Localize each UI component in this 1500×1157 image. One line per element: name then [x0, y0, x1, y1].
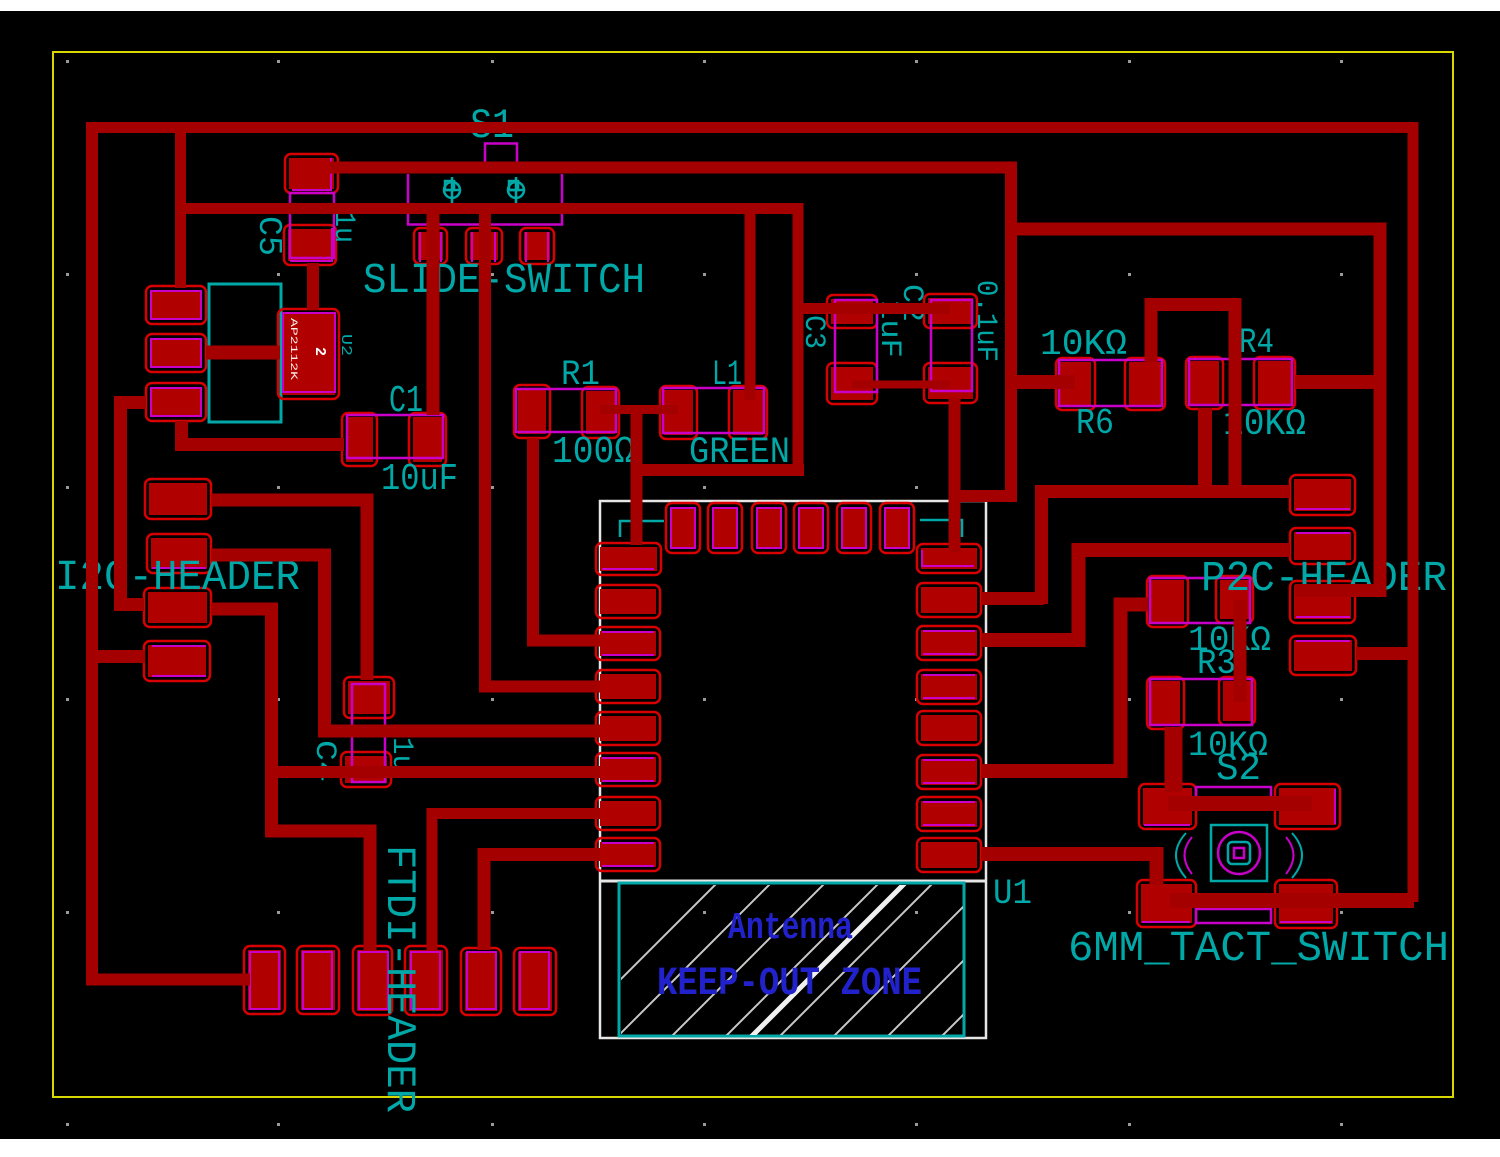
- svg-text:R4: R4: [1239, 323, 1274, 363]
- regulator U2 pin 2: [146, 334, 206, 372]
- pad detail U1 top 6: [885, 508, 909, 548]
- I2C header pad 1: [145, 479, 211, 519]
- svg-text:2: 2: [311, 347, 328, 356]
- resistor R3 pad 1: [1147, 576, 1188, 627]
- capacitor C1 pad 1: [342, 413, 377, 466]
- U1 inner silk corner left: [620, 521, 664, 537]
- svg-text:U1: U1: [993, 874, 1032, 914]
- U1 top pad 2: [708, 503, 742, 553]
- P2C header pad 4: [1290, 636, 1356, 675]
- svg-text:KEEP-OUT ZONE: KEEP-OUT ZONE: [657, 962, 922, 1007]
- wire W12 row2 to pad B: [981, 550, 1290, 640]
- pad detail U1 right 3: [923, 675, 975, 698]
- pad detail reg3: [151, 388, 201, 416]
- wire W18 S2 bottom link: [1170, 893, 1414, 908]
- resistor R7 pad 2: [1219, 677, 1255, 725]
- wire W24 I2C pad3 to FTDI pad2: [211, 609, 370, 950]
- svg-text:100Ω: 100Ω: [552, 431, 635, 474]
- FTDI header pad 4: [405, 946, 447, 1015]
- U1 left pad 7: [596, 838, 660, 871]
- wire W33 C5 to U2 tab: [307, 263, 319, 310]
- wire W20 R4 left pad down: [1198, 408, 1212, 490]
- pad detail U1 wide left: [602, 568, 654, 570]
- U1 right pad 7: [917, 838, 981, 872]
- pad detail U1 top 4: [799, 508, 823, 548]
- pad detail FTDI4: [411, 952, 440, 1009]
- wire W19 row7 to S2: [981, 854, 1157, 885]
- capacitor C4 pad 2: [341, 752, 391, 787]
- capacitor C5 pad 1: [285, 154, 338, 193]
- pad detail S2-2: [1334, 789, 1336, 824]
- resistor R6 pad 2: [1125, 358, 1165, 410]
- inductor L1 body: [663, 388, 764, 433]
- wire W1 top rail to S2: [86, 128, 1413, 903]
- pad detail U1 wide right: [922, 550, 974, 566]
- resistor R7 body: [1150, 679, 1252, 725]
- pad detail P2C A: [1296, 508, 1350, 510]
- pad detail reg1: [151, 291, 201, 319]
- FTDI header pad 1: [244, 946, 285, 1014]
- slide switch S1 tab: [485, 144, 517, 163]
- regulator U2 pin 1: [146, 286, 206, 324]
- U1 top pad 3: [752, 503, 786, 553]
- wire W14 row5 to R3: [981, 605, 1148, 772]
- wire W9 R6 left link: [1011, 375, 1075, 389]
- resistor R4 pad 2: [1254, 357, 1295, 409]
- FTDI header pad 5: [461, 948, 501, 1015]
- svg-text:C5: C5: [250, 216, 287, 256]
- pad detail FTDI5: [467, 952, 496, 1009]
- U1 corner pad right: [917, 544, 981, 573]
- wire W16 R7 to S2: [1165, 727, 1183, 792]
- wire W26 U1 row7 to FTDI pad4: [484, 855, 600, 951]
- U1 right pad 2: [917, 626, 981, 660]
- capacitor C5 pad 2: [284, 225, 336, 265]
- pad detail S2-3: [1142, 921, 1190, 923]
- wire W15 R3-R7 link: [1234, 600, 1247, 702]
- pad detail U1 right 5: [923, 760, 975, 783]
- U1 left pad 1: [596, 585, 660, 618]
- pad detail P2C D: [1296, 640, 1350, 642]
- U1 left pad 6: [596, 797, 660, 830]
- pad detail U1 top 2: [713, 508, 737, 548]
- resistor R6 pad 1: [1056, 358, 1095, 410]
- wire W36 R1 to U1 row2: [533, 438, 600, 641]
- U1 right pad 3: [917, 670, 981, 704]
- pad detail U1 right 2: [923, 631, 975, 654]
- capacitor C2 pad 1: [924, 294, 977, 328]
- pad detail U2 tab inset: [283, 313, 335, 392]
- antenna keep-out zone top edge: [601, 880, 985, 883]
- tact switch S2 bottom bar: [1196, 909, 1271, 923]
- pad detail U1 left 2: [602, 632, 654, 655]
- slide switch S1 pad 3: [520, 228, 554, 264]
- tact switch S2 top bar: [1196, 787, 1271, 799]
- capacitor C1 pad 2: [409, 413, 446, 466]
- svg-text:6MM_TACT_SWITCH: 6MM_TACT_SWITCH: [1068, 924, 1449, 973]
- svg-text:1u: 1u: [326, 211, 360, 243]
- FTDI header pad 6: [514, 948, 556, 1015]
- slide switch mounting mark: [443, 177, 461, 203]
- pad detail FTDI3: [359, 952, 388, 1009]
- resistor R1 pad 2: [582, 387, 619, 438]
- pad detail U1 top 1: [671, 508, 695, 548]
- svg-text:L1: L1: [712, 355, 742, 395]
- pad detail P2C B: [1296, 532, 1350, 534]
- resistor R4 body: [1189, 359, 1292, 405]
- U1 corner pad left: [596, 543, 661, 575]
- capacitor C5 body: [290, 193, 334, 258]
- wire W27 left rail to FTDI pad1: [92, 124, 250, 980]
- wire W2b branch to header pad C: [1011, 229, 1380, 591]
- wire W35 switch pad2 to U1 row3: [485, 206, 600, 687]
- wire W4 caps top link: [796, 303, 950, 314]
- P2C header pad 1: [1290, 475, 1355, 515]
- slide switch S1 pad 1: [414, 228, 447, 264]
- resistor R4 pad 1: [1186, 357, 1223, 409]
- pad detail S2-4: [1280, 921, 1332, 923]
- wire W11a R6 jumper to pad A: [1151, 305, 1290, 492]
- pad detail FTDI6: [520, 952, 549, 1009]
- I2C header pad 3: [144, 588, 211, 627]
- svg-text:U2: U2: [337, 334, 354, 356]
- svg-text:AP2112K: AP2112K: [287, 318, 298, 380]
- antenna keep-out zone inner outline: [619, 883, 964, 1036]
- grid dots: [66, 60, 69, 63]
- wire W2 C5 to C2 to U1: [330, 168, 1011, 553]
- svg-text:0.1uF: 0.1uF: [968, 280, 1002, 362]
- capacitor C3 body: [835, 300, 877, 392]
- bottom white margin: [0, 1139, 1500, 1152]
- U1 right pad 5: [917, 755, 981, 789]
- capacitor C2 pad 2: [924, 363, 977, 403]
- U1 left pad 2: [596, 627, 660, 660]
- U1 top pad 1: [666, 503, 700, 553]
- U1 top pad 6: [880, 503, 914, 553]
- tact switch S2 pad 3: [1137, 880, 1196, 927]
- svg-text:S2: S2: [1216, 748, 1261, 791]
- tact switch S2 button: [1228, 842, 1250, 864]
- svg-text:C1: C1: [389, 380, 423, 423]
- pad detail C5-2: [290, 228, 332, 261]
- U1 inner silk corner right: [920, 520, 962, 537]
- resistor R3 pad 2: [1216, 576, 1253, 623]
- svg-text:R6: R6: [1076, 403, 1114, 444]
- svg-text:R3: R3: [1197, 644, 1236, 684]
- top white margin: [0, 0, 1500, 11]
- U1 top pad 5: [837, 503, 871, 553]
- U1 top pad 4: [794, 503, 828, 553]
- inductor L1 pad 2: [729, 386, 767, 439]
- wire W28 I2C pad4 stub: [92, 650, 145, 663]
- U1 left pad 5: [596, 753, 660, 786]
- U1 right pad 6: [917, 797, 981, 831]
- ESP32 module U1 outline: [600, 501, 986, 1038]
- op-amp U2 courtyard box: [209, 284, 281, 422]
- pad detail U1 right 6: [923, 802, 975, 825]
- wire W31 rail to reg pin1: [175, 127, 186, 288]
- capacitor C4 pad 1: [344, 677, 394, 718]
- wire W5 caps bottom link: [852, 381, 950, 389]
- pad detail FTDI1: [250, 952, 279, 1009]
- wire W30 reg pin3 to I2C pad3: [121, 403, 147, 605]
- svg-text:R1: R1: [561, 355, 600, 395]
- wire W13 pad D link: [1356, 647, 1413, 660]
- capacitor C1 body: [347, 415, 443, 458]
- wire W6 LED net to U1 pad: [631, 408, 804, 545]
- pad detail I2C4: [152, 646, 206, 676]
- wire W11c row1 stub: [981, 592, 1044, 605]
- wire W23 C4 to U1 row5: [268, 766, 600, 778]
- svg-text:FTDI-HEADER: FTDI-HEADER: [375, 845, 423, 1113]
- I2C header pad 4: [144, 641, 210, 681]
- regulator U2 pin 3: [146, 383, 206, 421]
- svg-text:SLIDE-SWITCH: SLIDE-SWITCH: [363, 256, 645, 305]
- wire W10 R4 right link: [1295, 375, 1380, 389]
- resistor R1 body: [516, 389, 616, 432]
- U1 right pad 1: [917, 583, 981, 617]
- U1 left pad 4: [596, 712, 660, 745]
- wire W32 reg pin3 to C1: [182, 421, 345, 445]
- capacitor C4 body: [352, 684, 385, 782]
- wire W21 I2C pad1 to C4: [211, 500, 367, 680]
- svg-text:Antenna: Antenna: [728, 907, 853, 950]
- resistor R1 pad 1: [514, 385, 550, 438]
- pad detail P2C C: [1296, 616, 1350, 618]
- P2C header pad 3: [1290, 581, 1355, 623]
- slide switch mounting mark: [507, 177, 525, 203]
- pad detail U1 top 5: [842, 508, 866, 548]
- pad detail FTDI2: [303, 952, 332, 1009]
- U1 right pad 4: [917, 711, 981, 745]
- pad detail C5-1: [292, 158, 331, 190]
- inductor L1 pad 1: [660, 386, 697, 439]
- wire W7 R1 to L1: [600, 405, 678, 414]
- resistor R7 pad 1: [1147, 677, 1184, 729]
- wire W29 reg pin2 to tab: [206, 346, 280, 360]
- pad detail S1-3: [526, 232, 548, 262]
- svg-text:10uF: 10uF: [381, 458, 458, 501]
- tact switch S2 side brackets: [1176, 833, 1186, 878]
- tact switch S2 center square: [1211, 825, 1267, 881]
- wire W22 I2C pad2 to U1 row4: [211, 555, 600, 731]
- slide switch S1 body: [408, 174, 562, 225]
- slide switch S1 pad 2: [466, 228, 502, 264]
- tact switch S2 center circle: [1218, 832, 1260, 874]
- wire W25 U1 row6 to FTDI pad3: [432, 814, 600, 951]
- I2C header pad 2: [147, 534, 211, 573]
- FTDI header pad 3: [353, 946, 392, 1015]
- wire W8 L1 right feed: [745, 211, 756, 400]
- pad detail U1 left 5: [602, 758, 654, 781]
- regulator U2 tab pad: [278, 309, 339, 399]
- capacitor C3 pad 2: [827, 363, 877, 404]
- svg-text:10KΩ: 10KΩ: [1040, 324, 1127, 365]
- tact switch S2 pad 4: [1275, 880, 1337, 928]
- pad detail I2C2: [152, 567, 206, 569]
- FTDI header pad 2: [297, 946, 339, 1014]
- P2C header pad 2: [1290, 528, 1355, 564]
- resistor R3 body: [1150, 578, 1250, 623]
- capacitor C3 pad 1: [827, 295, 877, 328]
- pad detail S1-1: [420, 232, 441, 262]
- wire W34 switch pad1 to C1: [427, 206, 440, 415]
- tact switch S2 pad 1: [1139, 784, 1196, 829]
- pad detail U1 top 3: [757, 508, 781, 548]
- U1 left pad 3: [596, 670, 660, 703]
- resistor R6 body: [1059, 360, 1162, 406]
- wire W3 mid rail: [180, 209, 798, 473]
- pad detail S2-1: [1144, 824, 1190, 826]
- wire W11b row1 vertical: [1042, 492, 1231, 605]
- pad detail U1 left 7: [602, 843, 654, 866]
- pad detail S1-2: [472, 232, 495, 262]
- pad detail reg2: [151, 339, 201, 367]
- wire W17 S2 top link: [1168, 796, 1312, 811]
- capacitor C2 body: [931, 300, 972, 391]
- tact switch S2 pad 2: [1275, 784, 1340, 829]
